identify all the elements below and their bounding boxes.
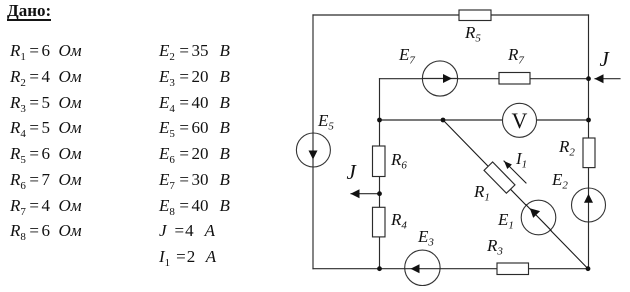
node: junction bottom right corner bbox=[586, 266, 591, 271]
svg-text:R7: R7 bbox=[507, 45, 524, 67]
current arrow I1 (on diagonal) bbox=[504, 161, 526, 183]
resistor R5 bbox=[459, 10, 491, 21]
svg-text:J: J bbox=[600, 47, 611, 71]
wire: outer right side bbox=[588, 15, 590, 269]
svg-text:E3: E3 bbox=[417, 227, 434, 249]
wire: diagonal R1-E1 branch bbox=[443, 120, 588, 269]
svg-text:R1: R1 bbox=[473, 182, 490, 204]
resistor R1 (rotated on diagonal) bbox=[484, 162, 515, 193]
resistor R2 bbox=[583, 138, 595, 168]
svg-text:R6: R6 bbox=[390, 150, 407, 172]
svg-text:I1: I1 bbox=[515, 149, 527, 171]
node: junction V to right wire bbox=[586, 118, 591, 123]
source E7 bbox=[422, 61, 457, 96]
resistor R4 bbox=[373, 207, 386, 237]
svg-text:E2: E2 bbox=[551, 170, 568, 192]
node: junction R7/J bbox=[586, 76, 591, 81]
current arrow J (middle left) bbox=[351, 189, 380, 198]
wire: outer left side bbox=[312, 15, 314, 269]
source E1 (on diagonal) bbox=[521, 200, 556, 235]
wire: E7-R7 branch bbox=[380, 78, 589, 80]
node: junction diagonal start bbox=[441, 118, 446, 123]
wire: voltmeter branch bbox=[380, 119, 589, 121]
wire: outer bottom side bbox=[313, 268, 589, 270]
node: junction J arrow mid bbox=[377, 191, 382, 196]
svg-text:E7: E7 bbox=[398, 45, 415, 67]
source E5 bbox=[296, 133, 330, 167]
svg-text:E1: E1 bbox=[497, 210, 514, 232]
source E3 bbox=[405, 250, 440, 285]
left given-data panel bbox=[7, 2, 51, 21]
source E2 bbox=[572, 188, 606, 222]
resistor R6 bbox=[373, 146, 386, 177]
svg-text:V: V bbox=[512, 108, 528, 133]
svg-text:R4: R4 bbox=[390, 210, 407, 232]
node: junction R6 top branch bbox=[377, 118, 382, 123]
node: junction bottom R4 bbox=[377, 266, 382, 271]
resistor R7 bbox=[499, 73, 530, 85]
svg-text:R2: R2 bbox=[558, 137, 575, 159]
voltmeter V bbox=[503, 103, 537, 137]
wire: middle vertical (R6/R4) bbox=[379, 79, 381, 269]
svg-text:E5: E5 bbox=[317, 111, 334, 133]
svg-text:J: J bbox=[347, 160, 358, 184]
svg-text:R3: R3 bbox=[486, 236, 503, 258]
current source arrow J (top right) bbox=[595, 74, 621, 83]
svg-text:R5: R5 bbox=[464, 23, 481, 45]
resistor R3 bbox=[497, 263, 529, 275]
wire: outer top side bbox=[313, 14, 589, 16]
